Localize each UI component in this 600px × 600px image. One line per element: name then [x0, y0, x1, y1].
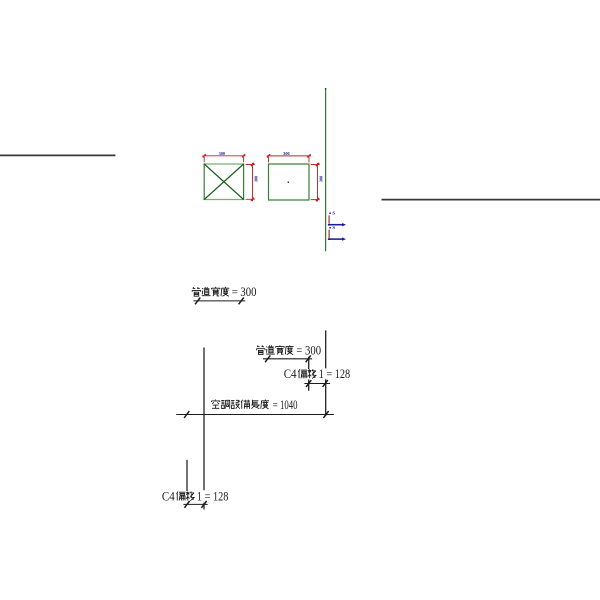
svg-text:S: S — [332, 226, 335, 230]
svg-text:C4: C4 — [284, 367, 297, 381]
svg-text:1 = 128: 1 = 128 — [319, 367, 351, 381]
svg-text:C4: C4 — [162, 490, 175, 504]
svg-text:300: 300 — [283, 151, 290, 156]
svg-text:300: 300 — [254, 175, 259, 182]
svg-text:= 1040: = 1040 — [273, 398, 298, 412]
svg-text:300: 300 — [219, 151, 226, 156]
svg-text:= 300: = 300 — [232, 285, 257, 299]
svg-text:1 = 128: 1 = 128 — [197, 490, 229, 504]
svg-text:S: S — [332, 212, 335, 216]
svg-text:= 300: = 300 — [296, 343, 321, 357]
svg-text:300: 300 — [318, 175, 323, 182]
